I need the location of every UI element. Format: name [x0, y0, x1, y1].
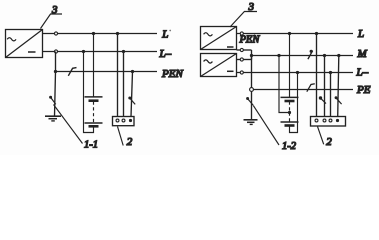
node load PEN tap [131, 70, 134, 73]
wire L- line [43, 51, 158, 53]
converter U2 box (upper) [201, 27, 237, 50]
wire midpoint upper lead [237, 49, 252, 51]
converter U2 diagonal [201, 27, 237, 50]
wire L- to PEN vertical and earthing conductor [55, 52, 56, 117]
battery GB2 cell 2 [281, 121, 299, 123]
earthing conductor mark right (dot and backslash) [246, 97, 249, 100]
wire midpoint lower lead [237, 59, 252, 61]
load terminal circle L- [122, 119, 125, 122]
converter U1 DC symbol minus [28, 51, 36, 53]
terminal circle on L- (right) [240, 71, 243, 74]
wire battery feed from L (right) [289, 34, 291, 98]
node load L+ tap [116, 32, 119, 35]
battery GB1 cell 1 [85, 96, 103, 98]
wire dashed between battery cells [93, 102, 95, 123]
wire battery return to L- (right) [290, 73, 298, 133]
PEN conductor mark (slash with hook) [68, 68, 76, 76]
svg-text:L: L [161, 28, 168, 40]
wire load drop from L- (right) [330, 73, 332, 117]
wire PEN earthing vertical [251, 56, 253, 120]
terminal circle on midpoint lower lead [240, 58, 243, 61]
converter U3 box (lower) [201, 54, 237, 77]
wire PE line [253, 89, 353, 91]
svg-text:1-1: 1-1 [84, 140, 98, 151]
label 2 leader (left) [118, 127, 124, 146]
wire load drop from L+ [117, 34, 119, 117]
svg-text:1-2: 1-2 [282, 141, 297, 152]
wire load drop from L (right) [316, 34, 318, 117]
node load L- tap [122, 50, 125, 53]
svg-text:3: 3 [248, 1, 255, 13]
PE conductor mark (slash with hook) [307, 84, 315, 92]
node PE split (open circle) [250, 88, 254, 92]
svg-text:L–: L– [356, 67, 369, 79]
node PEN junction dot [54, 70, 57, 73]
wire L- line (right) [237, 72, 354, 74]
wire L+ line [43, 33, 158, 35]
node load M tap [323, 54, 326, 57]
label 1-1 leader [54, 105, 83, 144]
node battery feed on L+ [92, 32, 95, 35]
svg-text:L–: L– [159, 48, 172, 60]
label 3 leader [41, 14, 63, 29]
battery GB1 cell 2 [85, 122, 103, 124]
node battery feed on L (right) [288, 32, 291, 35]
load terminal circle M [323, 119, 326, 122]
wire battery return to L- [84, 52, 94, 133]
load terminal circle L- (right) [329, 119, 332, 122]
svg-text:2: 2 [326, 136, 332, 148]
wire chassis PE drop from M [338, 56, 339, 118]
converter U3 DC symbol minus [227, 70, 234, 72]
converter U1 AC symbol ~ [7, 38, 16, 41]
wire M line [252, 55, 354, 57]
PE conductor mark on load drop (dot and backslash) [128, 97, 131, 100]
node battery return on L- (right) [296, 71, 299, 74]
converter U3 AC symbol ~ [204, 60, 213, 63]
PE conductor mark on chassis drop (dot and backslash) [335, 96, 338, 99]
label 1-2 leader [253, 106, 279, 146]
svg-text:PEN: PEN [239, 35, 261, 46]
wire load drop from M [324, 56, 326, 117]
load terminal circle L (right) [315, 119, 318, 122]
svg-text:PE: PE [356, 84, 371, 96]
terminal circle on L+ [54, 32, 57, 35]
M conductor mark (slash with dot) [308, 51, 313, 60]
terminal circle on midpoint upper lead [240, 48, 243, 51]
converter U2 AC symbol ~ [204, 33, 213, 36]
svg-text:M: M [357, 48, 368, 60]
svg-text:L: L [357, 28, 364, 40]
earthing conductor mark (dot and backslash) [49, 96, 52, 99]
converter U1 (source 3) box [6, 30, 43, 58]
load terminal circle L+ [116, 119, 119, 122]
wire PEN line [56, 71, 158, 73]
svg-text:PEN: PEN [161, 68, 183, 80]
battery GB2 cell 1 [281, 96, 299, 98]
ground electrode (system earthing 1-1) [45, 115, 61, 117]
node M line tap [250, 54, 253, 57]
converter U3 diagonal [201, 54, 237, 77]
wire battery midpoint tap to M [279, 56, 290, 113]
ground electrode (system earthing 1-2) [244, 119, 258, 121]
converter U1 diagonal [6, 30, 43, 58]
wire L line [237, 33, 354, 35]
wire midpoint jog vertical [251, 50, 253, 60]
converter U2 DC symbol minus [227, 46, 234, 48]
terminal circle on L [240, 32, 243, 35]
svg-text:2: 2 [127, 136, 133, 148]
wire battery feed from L+ [93, 34, 95, 97]
wire dashed between battery cells (right) [289, 113, 291, 122]
svg-text:3: 3 [51, 4, 58, 16]
node load L- tap (right) [329, 71, 332, 74]
label 2 leader (right) [318, 127, 324, 145]
load appliance box (exposed conductive part 2) [113, 117, 135, 126]
node battery tap junction dot [288, 111, 291, 114]
wire dashed below battery cell 1 [289, 102, 291, 113]
node battery tap on M [277, 54, 280, 57]
M conductor mark on load drop (dot and backslash) [319, 96, 322, 99]
node load L tap (right) [315, 32, 318, 35]
label 3 leader (right) [230, 12, 257, 28]
load PE terminal dot (right) [336, 119, 339, 122]
wire load drop from L- [123, 52, 125, 117]
node chassis tap on M [337, 54, 340, 57]
load PE terminal dot [129, 119, 132, 122]
wire load PE drop from PEN [131, 72, 133, 117]
load appliance box right (exposed conductive part 2) [311, 117, 346, 127]
terminal circle on L- [54, 50, 57, 53]
node battery return on L- [82, 50, 85, 53]
